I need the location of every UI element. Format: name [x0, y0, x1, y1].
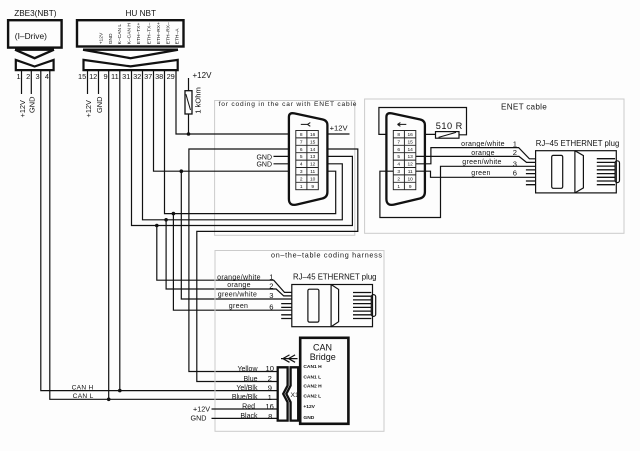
wire HU pin12 GND stub [98, 70, 100, 94]
svg-text:GND: GND [303, 415, 314, 421]
RJ-45 plug P3 body [292, 285, 376, 327]
svg-text:(I–Drive): (I–Drive) [15, 31, 47, 41]
svg-text:12: 12 [310, 162, 316, 168]
wire net ETH-RX- pin38 to OBD pin11 [165, 70, 336, 214]
svg-text:1: 1 [300, 184, 303, 190]
svg-text:1: 1 [269, 273, 273, 282]
svg-text:5: 5 [300, 154, 303, 160]
wire net K-CAN H ZBE pin3 to CAN bridge [41, 70, 278, 391]
junction dot K-CAN L [107, 398, 111, 402]
X1 connector half A [278, 367, 288, 420]
svg-text:Black: Black [240, 413, 258, 420]
resistor R1 1kOhm [185, 91, 192, 114]
svg-text:+12V: +12V [98, 32, 104, 44]
svg-text:ETH–RX–: ETH–RX– [165, 22, 171, 44]
RJ-45 plug P2 body [536, 151, 620, 193]
HU NBT box [77, 20, 184, 46]
wire ZBE pin1 +12V stub [21, 70, 23, 94]
svg-text:5: 5 [397, 154, 400, 160]
svg-text:HU NBT: HU NBT [126, 9, 156, 18]
svg-text:GND: GND [256, 162, 272, 169]
svg-text:+12V: +12V [193, 71, 213, 80]
wire GND stub pin4 [274, 163, 296, 165]
dashed frame box3 [215, 251, 384, 432]
svg-text:CAN2 H: CAN2 H [303, 384, 322, 390]
svg-text:Yellow: Yellow [238, 366, 259, 373]
ZBE3 box U-ZBE [8, 20, 62, 47]
OBD J1 orientation mark [301, 123, 311, 127]
svg-text:RJ–45 ETHERNET plug: RJ–45 ETHERNET plug [536, 139, 620, 148]
svg-text:9: 9 [268, 383, 272, 392]
svg-text:14: 14 [310, 147, 316, 153]
svg-text:CAN1 H: CAN1 H [303, 364, 322, 370]
svg-text:2: 2 [269, 281, 273, 290]
svg-text:16: 16 [310, 132, 316, 138]
svg-text:12: 12 [89, 72, 97, 81]
wire ENET green pin11 to RJ45 pin6 [416, 171, 536, 177]
wire ZBE pin2 GND stub [30, 70, 32, 94]
svg-text:+12V: +12V [84, 100, 93, 118]
svg-text:10: 10 [266, 364, 274, 373]
svg-text:Blue: Blue [243, 376, 257, 383]
svg-text:37: 37 [144, 72, 152, 81]
svg-text:2: 2 [300, 176, 303, 182]
svg-text:10: 10 [408, 176, 414, 182]
wire ENET green/white pin3 to RJ45 pin3 [380, 166, 536, 217]
wire Black GND row [212, 417, 278, 419]
svg-text:32: 32 [133, 72, 141, 81]
wire net D-CAN H OBD pin6 to CAN1 H [189, 149, 296, 372]
svg-text:4: 4 [397, 162, 400, 168]
svg-text:ETH–RX+: ETH–RX+ [156, 22, 162, 44]
svg-text:RJ–45 ETHERNET plug: RJ–45 ETHERNET plug [293, 273, 377, 282]
svg-text:green: green [229, 303, 248, 310]
OBD P1 orientation arrow [398, 123, 407, 127]
svg-text:1: 1 [513, 139, 517, 148]
HU connector pentagon [84, 60, 178, 70]
svg-text:10: 10 [310, 176, 316, 182]
wire 1kOhm bottom lead [188, 114, 190, 134]
wire GND stub pin5 [274, 155, 296, 157]
wire ENET orange pin13 to RJ45 pin2 [416, 156, 536, 162]
svg-text:15: 15 [310, 139, 316, 145]
svg-text:3: 3 [513, 159, 517, 168]
svg-text:green/white: green/white [218, 291, 258, 298]
svg-text:GND: GND [28, 97, 37, 113]
svg-text:+12V: +12V [18, 100, 27, 118]
svg-text:510 R: 510 R [436, 121, 463, 131]
svg-text:6: 6 [269, 303, 273, 312]
wire HU pin9 K-CAN L down [108, 70, 110, 399]
junction dot green/white branch [180, 169, 184, 173]
svg-text:12: 12 [408, 162, 414, 168]
svg-text:9: 9 [409, 184, 412, 190]
svg-text:15: 15 [408, 139, 414, 145]
wire HU pin15 +12V stub [87, 70, 89, 94]
svg-text:4: 4 [45, 72, 49, 81]
svg-text:1: 1 [268, 393, 272, 402]
svg-text:4: 4 [300, 162, 303, 168]
X1 mating symbol [281, 355, 298, 362]
svg-text:1 kOhm: 1 kOhm [194, 87, 203, 114]
svg-text:GND: GND [191, 414, 207, 423]
svg-text:CAN L: CAN L [73, 393, 94, 400]
OBD J1 pin numbers left column [300, 132, 303, 190]
wire OBD pin16 +12V stub [318, 133, 349, 135]
ZBE connector pentagon [16, 60, 54, 70]
wire branch green/white to table RJ45 wire3 [181, 171, 291, 299]
svg-text:green/white: green/white [462, 159, 502, 166]
dashed frame box2 [365, 99, 624, 233]
wire net ETH-TX+ pin31 to OBD pin13 [132, 70, 353, 225]
ZBE connector chevron [15, 50, 54, 59]
svg-text:+12V: +12V [330, 124, 349, 133]
wire net D-CAN L OBD pin14 to CAN1 L [197, 149, 358, 382]
svg-text:GND: GND [256, 154, 272, 161]
OBD J1 outline [289, 113, 328, 205]
svg-text:38: 38 [155, 72, 163, 81]
svg-text:for coding in the car with ENE: for coding in the car with ENET cable [219, 101, 358, 108]
svg-text:11: 11 [111, 72, 119, 81]
svg-text:Bridge: Bridge [310, 352, 336, 362]
svg-text:16: 16 [265, 402, 273, 411]
svg-text:6: 6 [300, 147, 303, 153]
wire net K-CAN L ZBE pin4 to CAN bridge [50, 70, 278, 399]
RJ-45 plug P2 contacts [597, 159, 615, 185]
junction dot orange branch [155, 224, 159, 228]
svg-text:2: 2 [513, 148, 517, 157]
svg-text:CAN2 L: CAN2 L [303, 393, 321, 399]
resistor R2 510R [436, 132, 460, 139]
wire ENET orange/white pin12 to RJ45 pin1 [416, 148, 536, 164]
svg-text:2: 2 [268, 374, 272, 383]
svg-text:6: 6 [397, 147, 400, 153]
wire Red +12V row [212, 408, 278, 410]
svg-text:Blue/Blk: Blue/Blk [232, 394, 258, 401]
svg-text:3: 3 [269, 291, 273, 300]
svg-text:1: 1 [397, 184, 400, 190]
svg-text:K–CAN H: K–CAN H [127, 23, 133, 45]
svg-text:ZBE3(NBT): ZBE3(NBT) [14, 9, 57, 18]
svg-text:ETH–TX+: ETH–TX+ [136, 23, 142, 45]
wire ENET loop pin8 to 510R [379, 108, 467, 135]
svg-text:orange: orange [227, 282, 251, 289]
svg-text:on–the–table coding harness: on–the–table coding harness [271, 250, 383, 259]
junction dot 1kOhm node [187, 132, 191, 136]
svg-text:3: 3 [35, 72, 39, 81]
svg-text:+12V: +12V [303, 404, 315, 410]
svg-text:14: 14 [408, 147, 414, 153]
svg-text:31: 31 [122, 72, 130, 81]
OBD P1 pin numbers right column [408, 132, 414, 190]
CAN bridge box U2 [300, 338, 348, 424]
HU connector neck bar [83, 49, 178, 51]
svg-text:6: 6 [513, 168, 517, 177]
svg-text:8: 8 [268, 412, 272, 421]
junction dot orange/white branch [164, 218, 168, 222]
svg-text:11: 11 [310, 169, 315, 175]
svg-text:Yel/Blk: Yel/Blk [236, 385, 258, 392]
svg-text:16: 16 [408, 132, 414, 138]
svg-text:ENET cable: ENET cable [501, 102, 547, 111]
wire branch to table RJ45 wire2 [166, 220, 292, 296]
wire HU pin11 K-CAN H down [119, 70, 121, 391]
svg-text:K–CAN L: K–CAN L [117, 24, 123, 45]
OBD P1 pin grid [393, 131, 416, 190]
svg-text:X1: X1 [290, 392, 299, 399]
OBD P1 outline [386, 113, 425, 205]
svg-text:2: 2 [397, 176, 400, 182]
wire branch orange to table RJ45 wire1 [157, 226, 292, 293]
svg-text:9: 9 [103, 72, 107, 81]
HU connector chevron [83, 50, 178, 59]
wire branch green to table RJ45 wire6 [173, 214, 291, 311]
svg-text:8: 8 [397, 132, 400, 138]
svg-text:ETH–TX–: ETH–TX– [146, 23, 152, 45]
OBD J1 pin numbers right column [310, 132, 316, 190]
wire net ETH-TX- pin32 to OBD pin12 [143, 70, 343, 220]
wire 1kOhm top lead to +12V [188, 78, 190, 91]
svg-text:11: 11 [408, 169, 413, 175]
svg-text:3: 3 [300, 169, 303, 175]
OBD P1 pin numbers left column [397, 132, 400, 190]
svg-text:green: green [471, 170, 490, 177]
dashed frame box1 [215, 101, 355, 236]
svg-text:1: 1 [16, 72, 20, 81]
svg-text:GND: GND [95, 97, 104, 113]
svg-text:13: 13 [310, 154, 316, 160]
OBD J1 pin grid [296, 131, 319, 190]
svg-text:3: 3 [397, 169, 400, 175]
svg-text:13: 13 [408, 154, 414, 160]
svg-text:GND: GND [108, 33, 114, 44]
svg-text:8: 8 [300, 132, 303, 138]
svg-text:+12V: +12V [193, 404, 210, 413]
wire net ETH-RX+ pin37 to OBD pin3 [154, 70, 296, 171]
X1 connector half B [286, 367, 298, 420]
svg-text:orange/white: orange/white [461, 141, 505, 148]
wire net ETH-A pin29 to OBD pin8 [176, 70, 296, 134]
svg-text:CAN H: CAN H [72, 384, 94, 391]
svg-text:29: 29 [167, 72, 175, 81]
svg-text:15: 15 [78, 72, 86, 81]
svg-text:orange: orange [471, 150, 495, 157]
svg-text:ETH–A: ETH–A [175, 28, 181, 45]
svg-text:9: 9 [311, 184, 314, 190]
svg-text:Red: Red [242, 404, 255, 411]
RJ45 P2 conductor stubs [526, 170, 536, 185]
svg-text:2: 2 [26, 72, 30, 81]
RJ-45 plug P3 contacts [353, 293, 371, 319]
svg-text:7: 7 [397, 139, 400, 145]
svg-text:7: 7 [300, 139, 303, 145]
junction dot K-CAN H [118, 389, 122, 393]
svg-text:orange/white: orange/white [217, 274, 261, 281]
ZBE connector neck bar [15, 49, 54, 51]
wire 510R left lead to pin16 [416, 133, 436, 135]
junction dot green branch [172, 212, 176, 216]
svg-text:CAN: CAN [313, 342, 332, 352]
RJ45 P3 conductor stubs [281, 304, 292, 319]
svg-text:CAN1 L: CAN1 L [303, 375, 321, 381]
